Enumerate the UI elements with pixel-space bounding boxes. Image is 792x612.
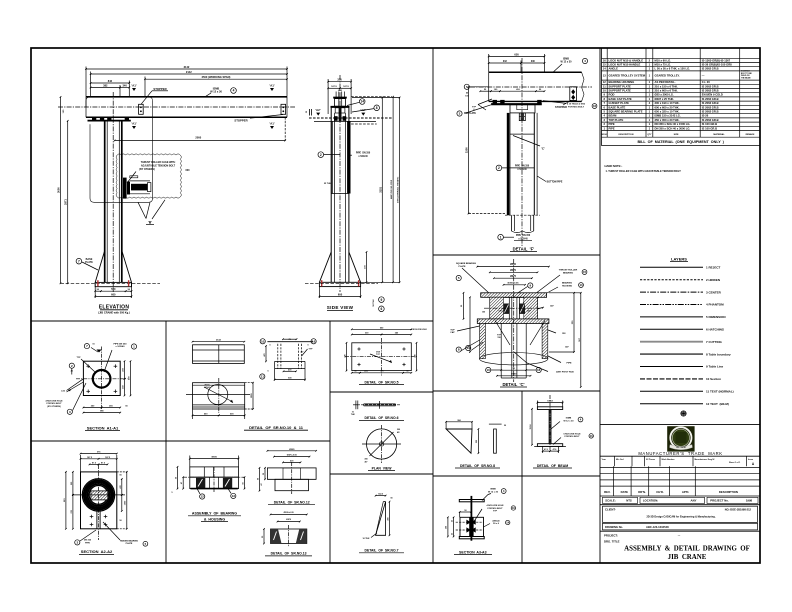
- svg-text:SUPPORT PLATE: SUPPORT PLATE: [609, 84, 632, 88]
- svg-text:DRG. TITLE: DRG. TITLE: [604, 540, 620, 544]
- svg-text:PIPE: PIPE: [567, 363, 573, 365]
- svg-text:IS 2062 GR.B: IS 2062 GR.B: [702, 101, 719, 105]
- svg-text:350 x 350 x 20 THK.: 350 x 350 x 20 THK.: [655, 118, 680, 122]
- svg-text:PLATE: PLATE: [85, 261, 93, 264]
- svg-text:8 Table boundary: 8 Table boundary: [706, 352, 731, 356]
- svg-text:IS 2062 GR.B: IS 2062 GR.B: [702, 105, 719, 109]
- svg-text:HOLE: HOLE: [204, 387, 210, 389]
- svg-text:DETAIL OF SR.NO.12: DETAIL OF SR.NO.12: [274, 501, 310, 505]
- svg-text:15: 15: [583, 270, 587, 274]
- svg-text:Ø470: Ø470: [510, 269, 517, 272]
- svg-text:167.5: 167.5: [331, 86, 337, 88]
- svg-text:50 THK: 50 THK: [373, 299, 375, 307]
- svg-text:PLATE: PLATE: [126, 542, 133, 545]
- svg-text:10: 10: [487, 368, 491, 372]
- svg-text:'A1': 'A1': [269, 84, 275, 88]
- svg-text:4 19 HOLE & M16: 4 19 HOLE & M16: [567, 103, 586, 106]
- svg-text:RIB PLATE: RIB PLATE: [464, 112, 476, 115]
- svg-text:DRAWING No.: DRAWING No.: [605, 525, 623, 529]
- svg-text:THE BEAM: THE BEAM: [741, 76, 751, 79]
- svg-text:HIDDEN BEARING: HIDDEN BEARING: [120, 540, 139, 543]
- svg-text:GEARED TROLLEY.: GEARED TROLLEY.: [655, 73, 680, 77]
- svg-text:ABC-123-1234548: ABC-123-1234548: [646, 525, 669, 529]
- svg-text:Ø500: Ø500: [510, 263, 517, 266]
- svg-text:ISMB: ISMB: [566, 417, 572, 419]
- svg-text:50 x 6: 50 x 6: [493, 523, 500, 525]
- svg-text:10: 10: [261, 339, 265, 343]
- svg-text:TOP: TOP: [450, 330, 455, 332]
- svg-text:13: 13: [579, 283, 583, 287]
- svg-text:DETAIL OF SR.NO.13: DETAIL OF SR.NO.13: [271, 552, 307, 556]
- svg-text:DETAIL OF SR.NO.8: DETAIL OF SR.NO.8: [460, 464, 495, 468]
- svg-text:IS 2062 GR.B: IS 2062 GR.B: [702, 84, 719, 88]
- svg-text:SR.NO: SR.NO: [601, 134, 608, 136]
- svg-text:IS 2062 GR.B: IS 2062 GR.B: [702, 89, 719, 93]
- svg-text:—: —: [702, 74, 705, 77]
- svg-text:650 x 320 x 10 THK.: 650 x 320 x 10 THK.: [655, 110, 680, 114]
- svg-text:IS-26: IS-26: [702, 114, 709, 118]
- svg-text:50: 50: [407, 371, 409, 373]
- svg-text:LOCK NUT M10 & HANDLE: LOCK NUT M10 & HANDLE: [609, 58, 644, 62]
- svg-text:10 THK: 10 THK: [363, 538, 370, 540]
- svg-text:DETAIL 'F': DETAIL 'F': [513, 246, 535, 251]
- svg-text:W 12 x 30: W 12 x 30: [561, 61, 573, 64]
- svg-text:500: 500: [111, 287, 116, 291]
- svg-text:IS 2062 GR.B: IS 2062 GR.B: [702, 67, 719, 71]
- svg-text:CH'D.: CH'D.: [656, 490, 664, 494]
- svg-text:Ø505+0.05: Ø505+0.05: [284, 512, 295, 514]
- svg-text:320: 320: [344, 354, 346, 357]
- svg-text:PROJECT No.: PROJECT No.: [710, 499, 729, 503]
- svg-text:TYP: TYP: [309, 349, 314, 351]
- svg-text:N° Pieces: N° Pieces: [646, 459, 656, 461]
- svg-text:IS 2062 GR.B: IS 2062 GR.B: [702, 118, 719, 122]
- svg-text:650: 650: [514, 52, 519, 56]
- svg-text:300: 300: [387, 517, 389, 520]
- svg-text:DETAIL OF SR.NO.7: DETAIL OF SR.NO.7: [365, 549, 399, 553]
- svg-text:1500: 1500: [465, 147, 469, 153]
- svg-text:LOCATION:: LOCATION:: [643, 499, 658, 503]
- svg-text:Ø100: Ø100: [511, 374, 517, 376]
- svg-text:ANY: ANY: [691, 499, 697, 503]
- svg-text:DETAIL OF SR.NO.5: DETAIL OF SR.NO.5: [365, 380, 399, 384]
- svg-text:Issue: Issue: [748, 459, 754, 461]
- svg-text:W 12 x 30: W 12 x 30: [564, 420, 575, 422]
- svg-text:SECTION A1-A1: SECTION A1-A1: [87, 425, 119, 430]
- svg-text:9: 9: [381, 298, 383, 302]
- svg-text:LAYERS: LAYERS: [671, 256, 687, 261]
- svg-text:120°: 120°: [498, 311, 502, 313]
- svg-text:TYP: TYP: [472, 107, 477, 109]
- svg-text:14: 14: [360, 100, 364, 104]
- svg-text:Ø297 x 25 THK.: Ø297 x 25 THK.: [655, 97, 675, 101]
- svg-text:SCALE:: SCALE:: [605, 499, 615, 503]
- svg-text:DESCRIPTION: DESCRIPTION: [719, 490, 738, 494]
- svg-text:5: 5: [307, 345, 308, 347]
- svg-text:BEARING: BEARING: [563, 272, 573, 275]
- svg-text:2142: 2142: [216, 339, 222, 342]
- svg-text:2: 2: [498, 166, 500, 170]
- svg-text:IS 2062 GR.B: IS 2062 GR.B: [702, 97, 719, 101]
- svg-text:SQUARE BEARING PLATE: SQUARE BEARING PLATE: [609, 110, 643, 114]
- svg-text:5: 5: [269, 345, 270, 347]
- svg-text:6: 6: [381, 307, 383, 311]
- svg-text:1998: 1998: [746, 499, 753, 503]
- svg-text:TYP: TYP: [376, 354, 381, 356]
- svg-text:PIPE: PIPE: [85, 542, 90, 544]
- svg-text:IS 100 GR.B: IS 100 GR.B: [702, 122, 717, 126]
- svg-text:LOCK NUT M10 HANDLE: LOCK NUT M10 HANDLE: [609, 63, 641, 67]
- svg-text:PROJECT:: PROJECT:: [604, 534, 618, 538]
- svg-text:BOTTOM PIPE: BOTTOM PIPE: [547, 182, 563, 184]
- svg-text:6 NOS Ø18 HOLE: 6 NOS Ø18 HOLE: [563, 434, 581, 436]
- svg-text:50: 50: [390, 498, 392, 500]
- svg-text:47.6: 47.6: [553, 448, 557, 451]
- svg-text:(BY OTHERS): (BY OTHERS): [139, 168, 155, 171]
- svg-text:187.5: 187.5: [87, 457, 93, 459]
- svg-text:Ø25 x 2000 LG.: Ø25 x 2000 LG.: [655, 93, 675, 97]
- svg-text:NO.-DOE-JB1998-212: NO.-DOE-JB1998-212: [725, 508, 752, 512]
- svg-text:NTS: NTS: [626, 499, 632, 503]
- svg-text:210 x 150 x 6 THK.: 210 x 150 x 6 THK.: [655, 84, 679, 88]
- svg-text:x SCH40: x SCH40: [116, 345, 126, 348]
- svg-text:4 PHANTOM: 4 PHANTOM: [706, 303, 724, 307]
- svg-text:AS PER DETAIL.: AS PER DETAIL.: [655, 80, 676, 84]
- svg-text:(BY OTHERS): (BY OTHERS): [47, 406, 61, 408]
- svg-text:ISMB: ISMB: [490, 489, 496, 491]
- svg-text:ANGLE: ANGLE: [492, 520, 500, 523]
- svg-text:ANGLE: ANGLE: [609, 67, 619, 71]
- svg-text:PLATE: PLATE: [458, 265, 466, 268]
- svg-text:JIB CRANE: JIB CRANE: [668, 554, 707, 561]
- svg-text:THRUST ROLLER: THRUST ROLLER: [559, 270, 578, 272]
- svg-text:MATERIAL: MATERIAL: [713, 133, 725, 136]
- svg-text:PIPE DN 350: PIPE DN 350: [113, 343, 127, 345]
- svg-text:16: 16: [537, 368, 541, 372]
- svg-text:45°: 45°: [397, 431, 400, 434]
- svg-text:6 HATCHING: 6 HATCHING: [706, 328, 725, 332]
- svg-text:DETAIL OF SR.NO.10 & 11: DETAIL OF SR.NO.10 & 11: [249, 425, 304, 430]
- svg-text:& HOUSING: & HOUSING: [204, 517, 226, 521]
- svg-text:IS-36 GR(B)/IS-100 GR8: IS-36 GR(B)/IS-100 GR8: [702, 63, 732, 67]
- svg-text:2500 (WORKING SPAN): 2500 (WORKING SPAN): [202, 75, 231, 79]
- svg-text:L 50 x 50 x 6 THK. x 150 LG.: L 50 x 50 x 6 THK. x 150 LG.: [655, 67, 691, 71]
- svg-text:Manufacturer Dwg N°: Manufacturer Dwg N°: [695, 458, 715, 461]
- svg-text:W 12 x 30: W 12 x 30: [210, 90, 222, 94]
- svg-text:'A1': 'A1': [269, 122, 275, 126]
- svg-text:4 NOS Ø18 HOLE: 4 NOS Ø18 HOLE: [486, 504, 504, 507]
- svg-text:167.5: 167.5: [343, 86, 349, 88]
- svg-text:AP'D.: AP'D.: [682, 490, 690, 494]
- svg-text:9 Table Line: 9 Table Line: [706, 365, 723, 369]
- svg-text:50: 50: [120, 520, 122, 522]
- svg-text:4 NOS Ø18 HOLE: 4 NOS Ø18 HOLE: [45, 400, 63, 403]
- svg-text:120°: 120°: [565, 347, 569, 349]
- svg-text:2 HIDDEN: 2 HIDDEN: [706, 278, 720, 282]
- svg-text:GUSSET PLATE: GUSSET PLATE: [609, 101, 630, 105]
- svg-text:M10 x 75 LG.: M10 x 75 LG.: [655, 63, 672, 67]
- svg-text:---: ---: [678, 534, 681, 537]
- svg-text:120°: 120°: [527, 311, 531, 313]
- svg-text:'A2': 'A2': [315, 108, 321, 112]
- svg-text:CLIENT-: CLIENT-: [605, 508, 616, 512]
- svg-text:M10 x 60 LG.: M10 x 60 LG.: [655, 58, 672, 62]
- svg-text:12 TEXT (BILM): 12 TEXT (BILM): [706, 402, 729, 406]
- svg-text:FOR M16 BOLT: FOR M16 BOLT: [46, 403, 62, 405]
- svg-text:'A1': 'A1': [131, 84, 137, 88]
- svg-text:DETAIL OF BEAM: DETAIL OF BEAM: [537, 464, 568, 468]
- svg-text:600 x 600 x 20 THK.: 600 x 600 x 20 THK.: [655, 105, 680, 109]
- svg-text:2: 2: [320, 153, 322, 157]
- svg-text:5: 5: [171, 492, 172, 494]
- svg-text:DESCRIPTION: DESCRIPTION: [619, 134, 634, 136]
- svg-text:Ø470+0.05: Ø470+0.05: [287, 454, 298, 457]
- svg-text:DETAIL OF SR.NO.6: DETAIL OF SR.NO.6: [365, 416, 399, 420]
- svg-text:M/c Ord: M/c Ord: [616, 459, 624, 461]
- svg-text:8: 8: [376, 106, 378, 110]
- svg-text:W 12 x 30: W 12 x 30: [488, 491, 499, 493]
- svg-text:187.5: 187.5: [105, 457, 111, 459]
- svg-text:340: 340: [122, 84, 127, 88]
- svg-text:DATE: DATE: [621, 490, 629, 494]
- svg-text:'A1': 'A1': [131, 122, 137, 126]
- svg-text:STOPPER: STOPPER: [153, 87, 166, 91]
- svg-text:25: 25: [451, 520, 453, 522]
- svg-text:15: 15: [603, 63, 606, 67]
- svg-text:10 Section: 10 Section: [706, 377, 721, 381]
- svg-text:FOR M16 BOLT: FOR M16 BOLT: [564, 436, 580, 438]
- svg-text:12: 12: [603, 80, 606, 84]
- svg-text:PIPE DN 350: PIPE DN 350: [516, 235, 531, 237]
- svg-text:STOPPER: STOPPER: [234, 118, 247, 122]
- svg-text:45°: 45°: [300, 351, 303, 354]
- svg-text:47.6: 47.6: [544, 448, 548, 451]
- svg-text:AMP 250 LVL 3050: AMP 250 LVL 3050: [390, 179, 393, 199]
- svg-text:10: 10: [603, 89, 606, 93]
- svg-text:1 REJECT: 1 REJECT: [706, 266, 721, 270]
- svg-text:Ø375: Ø375: [510, 275, 517, 278]
- svg-text:SQUARE BEARING: SQUARE BEARING: [456, 262, 476, 265]
- svg-text:142.5: 142.5: [378, 493, 383, 496]
- svg-text:REV.: REV.: [604, 490, 610, 494]
- svg-text:25: 25: [451, 533, 453, 535]
- svg-text:120°: 120°: [550, 306, 554, 308]
- svg-text:FOR M16 BOLT: FOR M16 BOLT: [487, 508, 503, 510]
- svg-text:3000 (OVERALL HEIGHT): 3000 (OVERALL HEIGHT): [397, 177, 400, 203]
- svg-text:SUPPORT PLATE: SUPPORT PLATE: [609, 89, 632, 93]
- svg-text:PIPE: PIPE: [609, 126, 615, 130]
- svg-text:1. THRUST ROLLER CAGE WITH ADJ: 1. THRUST ROLLER CAGE WITH ADJUSTABLE TE…: [606, 170, 682, 173]
- svg-text:PIPE DN 350: PIPE DN 350: [515, 166, 530, 168]
- svg-text:Ø500: Ø500: [211, 457, 217, 459]
- svg-text:x SCH40: x SCH40: [517, 168, 527, 171]
- svg-text:12: 12: [201, 495, 205, 499]
- svg-text:600: 600: [186, 169, 191, 172]
- svg-text:IS-1363-GR(B)-IS-1367: IS-1363-GR(B)-IS-1367: [702, 58, 731, 62]
- svg-text:50: 50: [355, 371, 357, 373]
- svg-text:IS 2062 GR.B: IS 2062 GR.B: [702, 110, 719, 114]
- svg-text:CAP: CAP: [450, 331, 455, 334]
- svg-text:REMARK: REMARK: [746, 133, 755, 136]
- svg-text:DN 350 x SCH 40 x 1500 LG.: DN 350 x SCH 40 x 1500 LG.: [655, 122, 691, 126]
- svg-text:11: 11: [261, 375, 265, 379]
- svg-text:(60): (60): [364, 371, 368, 373]
- svg-text:13: 13: [603, 73, 606, 77]
- svg-text:150.8: 150.8: [547, 401, 553, 403]
- svg-text:PIPE DN 350: PIPE DN 350: [356, 153, 371, 155]
- svg-text:DN 350 x SCH 40 x 3000 LG.: DN 350 x SCH 40 x 3000 LG.: [655, 126, 691, 130]
- svg-text:TOP PLATE: TOP PLATE: [609, 118, 624, 122]
- svg-text:1: 1: [500, 235, 502, 239]
- svg-text:DR'N.: DR'N.: [638, 490, 646, 494]
- svg-text:PLAN VIEW: PLAN VIEW: [372, 466, 393, 470]
- svg-text:QTY: QTY: [647, 134, 652, 136]
- svg-text:25 THK: 25 THK: [324, 183, 332, 185]
- svg-text:'B': 'B': [148, 221, 152, 225]
- svg-text:SIDE VIEW: SIDE VIEW: [327, 305, 354, 310]
- svg-text:BASE CAP PLATE: BASE CAP PLATE: [609, 97, 632, 101]
- svg-text:210 x 600 x 6 THK.: 210 x 600 x 6 THK.: [655, 89, 679, 93]
- svg-text:MANUFACTURER'S TRADE MARK: MANUFACTURER'S TRADE MARK: [638, 451, 722, 456]
- svg-text:300 x 190 x 10 THK.: 300 x 190 x 10 THK.: [655, 101, 680, 105]
- svg-text:SECTION A2-A2: SECTION A2-A2: [81, 549, 113, 554]
- svg-text:ROD: ROD: [609, 93, 615, 97]
- svg-text:7 CUTTING: 7 CUTTING: [706, 340, 723, 344]
- svg-text:C.I. 20: C.I. 20: [702, 80, 710, 84]
- svg-text:2142: 2142: [186, 70, 192, 74]
- svg-text:50: 50: [120, 474, 122, 476]
- svg-text:HOUSING: HOUSING: [562, 286, 573, 288]
- svg-text:11 TEXT (NORMAL): 11 TEXT (NORMAL): [706, 390, 734, 394]
- svg-text:Ø470: Ø470: [286, 518, 292, 521]
- svg-text:Ø505: Ø505: [289, 449, 295, 451]
- svg-text:ANTI PIVOT ROD: ANTI PIVOT ROD: [556, 371, 574, 374]
- svg-text:2D-3D Design CAD/CAM for Engin: 2D-3D Design CAD/CAM for Engineering & M…: [646, 516, 715, 519]
- svg-text:Work Number: Work Number: [662, 459, 675, 461]
- svg-text:TYP: TYP: [76, 357, 81, 359]
- svg-text:BEARING HOUSING: BEARING HOUSING: [609, 80, 635, 84]
- svg-text:STOPPER: STOPPER: [555, 106, 567, 109]
- svg-text:Sheet 1 of 1: Sheet 1 of 1: [729, 461, 741, 464]
- svg-text:5: 5: [267, 371, 268, 373]
- svg-text:(JIB CRANE with 500 Kg.): (JIB CRANE with 500 Kg.): [98, 310, 130, 314]
- svg-text:2000: 2000: [195, 136, 201, 140]
- svg-text:JIB CRANE: JIB CRANE: [676, 446, 686, 449]
- svg-text:FOR M16 BOLT: FOR M16 BOLT: [568, 107, 585, 109]
- svg-text:13: 13: [232, 494, 236, 498]
- svg-text:4: 4: [233, 89, 235, 93]
- svg-text:2871: 2871: [64, 199, 68, 205]
- svg-text:HAND NOTE:-: HAND NOTE:-: [605, 164, 623, 168]
- svg-text:600: 600: [338, 292, 343, 296]
- svg-text:BEAM: BEAM: [609, 114, 618, 118]
- svg-text:ISMB 150 x 3142 LG.: ISMB 150 x 3142 LG.: [655, 114, 681, 118]
- svg-text:TYP: TYP: [493, 511, 498, 513]
- svg-text:ASSEMBLY & DETAIL DRAWING: ASSEMBLY & DETAIL DRAWING OF: [624, 546, 750, 553]
- svg-text:600: 600: [111, 292, 116, 296]
- svg-text:16: 16: [593, 104, 597, 108]
- svg-text:BEARING: BEARING: [562, 282, 572, 285]
- svg-text:BILL OF MATERIAL (ONE EQUI: BILL OF MATERIAL (ONE EQUIPMENT ONLY ): [637, 140, 724, 144]
- svg-text:3151: 3151: [378, 186, 382, 192]
- svg-text:BASE PLATE: BASE PLATE: [609, 105, 626, 109]
- svg-text:GEARED TROLLEY SYSTEM: GEARED TROLLEY SYSTEM: [609, 73, 646, 77]
- svg-text:382: 382: [103, 84, 108, 88]
- svg-text:SIZE: SIZE: [674, 134, 679, 136]
- svg-text:x SCH40: x SCH40: [358, 155, 368, 158]
- svg-text:5 DIMENSION: 5 DIMENSION: [706, 315, 726, 319]
- svg-text:PIPE: PIPE: [609, 122, 615, 126]
- svg-text:150°: 150°: [562, 333, 566, 335]
- svg-text:DETAIL 'C': DETAIL 'C': [502, 382, 524, 387]
- svg-text:DN 350: DN 350: [84, 540, 92, 542]
- svg-text:14: 14: [603, 67, 606, 71]
- svg-text:3 CENTER: 3 CENTER: [706, 290, 722, 294]
- svg-text:45°: 45°: [364, 461, 367, 464]
- svg-text:ASSEMBLY OF BEARING: ASSEMBLY OF BEARING: [192, 512, 237, 516]
- svg-text:7: 7: [78, 259, 80, 263]
- svg-text:842: 842: [108, 79, 113, 83]
- svg-text:IS 100 GR.B: IS 100 GR.B: [702, 126, 717, 130]
- svg-text:'C': 'C': [541, 147, 545, 151]
- svg-text:3000: 3000: [57, 187, 61, 193]
- svg-text:230: 230: [414, 354, 416, 357]
- svg-text:SECTION A3-A3: SECTION A3-A3: [459, 550, 487, 554]
- svg-text:THK: THK: [351, 414, 356, 416]
- svg-text:16: 16: [603, 58, 606, 62]
- svg-text:470: 470: [381, 370, 384, 373]
- svg-text:3142: 3142: [184, 65, 190, 69]
- svg-text:150.8: 150.8: [530, 424, 532, 430]
- svg-text:Year: Year: [602, 459, 606, 461]
- svg-text:EN 8/EN 9 COLD: EN 8/EN 9 COLD: [702, 93, 723, 97]
- svg-text:4 NOS Ø18 HOLE: 4 NOS Ø18 HOLE: [411, 328, 427, 331]
- svg-text:11: 11: [603, 84, 606, 88]
